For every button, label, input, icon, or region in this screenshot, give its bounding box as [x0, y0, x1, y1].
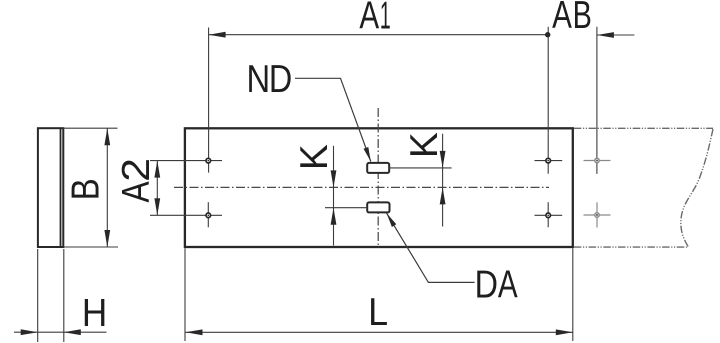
- top-right hole crosshair horizontal: [535, 160, 563, 162]
- phantom bottom hole crosshair vertical: [596, 202, 598, 227]
- dimension K left line: [333, 146, 335, 246]
- dimension H extension line left: [37, 249, 39, 342]
- dimension A2 line: [156, 161, 158, 216]
- dimension B line: [106, 128, 108, 247]
- dimension A1 arrow left: [209, 32, 226, 38]
- slot vertical centerline: [377, 108, 379, 248]
- bottom-left hole: [206, 213, 211, 218]
- horizontal centerline: [174, 186, 549, 188]
- dimension L line: [185, 331, 573, 333]
- svg-text:N: N: [246, 56, 270, 100]
- dimension K right arrow upper: [440, 151, 446, 168]
- phantom bottom hole crosshair horizontal: [584, 214, 611, 216]
- dimension A2 arrow top: [154, 161, 160, 178]
- dimension L extension line left: [184, 248, 186, 341]
- svg-text:B: B: [63, 178, 107, 200]
- phantom top hole crosshair horizontal: [584, 160, 611, 162]
- dimension K right arrow lower: [440, 187, 446, 204]
- dimension AB extension line right (through phantom hole): [596, 27, 598, 174]
- top-right hole: [546, 158, 551, 163]
- bottom-right hole: [546, 213, 551, 218]
- svg-text:L: L: [368, 290, 388, 334]
- bottom-right hole crosshair horizontal: [535, 214, 563, 216]
- leader ND line: [295, 78, 371, 161]
- dimension B arrow bottom: [104, 230, 110, 247]
- dimension H line: [14, 331, 107, 333]
- leader DA arrowhead: [387, 213, 397, 227]
- leader ND arrowhead: [364, 147, 371, 162]
- dimension H extension line right: [63, 249, 65, 342]
- dimension K right extension line (from upper slot): [389, 167, 451, 169]
- dimension L arrow right: [556, 329, 573, 335]
- bottom-left hole crosshair vertical: [207, 202, 209, 227]
- dimension B extension line bottom: [63, 246, 118, 248]
- dimension A1 extension line right (through top-right hole): [547, 27, 549, 174]
- dimension A2 arrow bottom: [154, 198, 160, 215]
- side view inner edge line: [60, 128, 62, 247]
- dimension K left arrow upper: [331, 170, 337, 187]
- dimension B arrow top: [104, 128, 110, 145]
- dimension A1 extension line left (through top-left hole): [208, 28, 210, 173]
- main plate outline: [185, 128, 573, 247]
- dimension A1 line: [209, 34, 548, 36]
- dimension H arrow left: [21, 329, 38, 335]
- bottom-right hole crosshair vertical: [547, 202, 549, 227]
- dimension K left extension line (from lower slot): [325, 207, 367, 209]
- phantom continuation top line: [574, 127, 713, 129]
- svg-text:D: D: [475, 263, 498, 307]
- svg-text:A: A: [359, 0, 380, 38]
- svg-text:A: A: [114, 181, 158, 203]
- svg-text:K: K: [403, 132, 446, 158]
- top-left hole crosshair horizontal (A2 extension): [150, 160, 222, 162]
- svg-text:1: 1: [380, 0, 391, 37]
- lower slot: [367, 202, 389, 212]
- dimension K left arrow lower: [331, 208, 337, 225]
- dimension H arrow right: [64, 329, 81, 335]
- dimension B extension line top: [63, 127, 117, 129]
- dimension L extension line right: [572, 248, 574, 341]
- dimension AB line: [597, 34, 635, 36]
- phantom top hole: [595, 158, 599, 162]
- dimension L arrow left: [186, 329, 203, 335]
- upper slot: [367, 163, 389, 173]
- side view outline: [38, 128, 63, 247]
- svg-text:D: D: [269, 57, 292, 101]
- svg-text:K: K: [293, 144, 336, 170]
- top-left hole: [206, 158, 211, 163]
- svg-text:H: H: [82, 290, 107, 334]
- phantom continuation bottom line: [574, 246, 688, 248]
- phantom bottom hole: [595, 213, 599, 217]
- dimension AB arrow: [597, 32, 614, 38]
- svg-text:A: A: [552, 0, 573, 37]
- svg-text:2: 2: [114, 158, 158, 182]
- svg-text:B: B: [573, 0, 592, 37]
- dimension K right line: [442, 134, 444, 227]
- leader DA line: [387, 213, 475, 282]
- svg-text:A: A: [498, 264, 519, 307]
- bottom-left hole crosshair horizontal (A2 extension): [150, 214, 222, 216]
- dimension A1 terminator dot: [545, 32, 550, 37]
- phantom break line: [681, 129, 713, 247]
